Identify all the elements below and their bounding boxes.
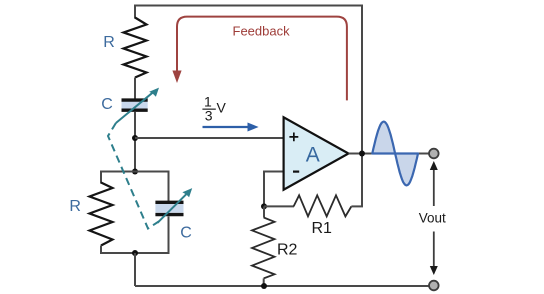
node junction plus-input (132, 135, 138, 141)
node junction RC top (132, 169, 138, 175)
sine wave output signal (372, 122, 418, 186)
wire R1 left lead (264, 205, 294, 207)
svg-text:C: C (180, 225, 192, 242)
wire RC left branch upper lead (100, 171, 102, 184)
op-amp plus sign (289, 133, 298, 142)
Vout arrow upper (430, 161, 438, 206)
output terminal top (429, 149, 439, 159)
capacitor C (bottom, variable) (155, 202, 183, 214)
wire minus input (264, 172, 284, 207)
wire plus input (135, 137, 284, 139)
node junction minus/R1/R2 (261, 203, 267, 209)
capacitor C (top, variable) (122, 100, 148, 110)
resistor R1 (294, 195, 352, 216)
wire capacitor to node A1 (134, 112, 136, 173)
svg-text:R1: R1 (312, 220, 333, 237)
node output (359, 151, 365, 157)
svg-text:R: R (103, 34, 115, 51)
arrow through bottom capacitor (158, 188, 193, 223)
svg-text:R: R (69, 198, 81, 215)
resistor R2 (252, 218, 275, 279)
wire R2 upper lead (263, 206, 265, 217)
wire left vertical top lead (134, 5, 136, 19)
wire R2 lower lead (263, 278, 265, 286)
label 1/3 V (202, 93, 226, 123)
svg-text:V: V (217, 100, 227, 116)
node junction R2 ground (261, 283, 267, 289)
svg-text:A: A (306, 144, 320, 167)
wire top of outer loop (135, 5, 362, 7)
svg-text:C: C (101, 96, 113, 113)
dashed gang line between capacitors (108, 123, 159, 229)
blue arrow (1/3 V direction) (203, 123, 259, 132)
feedback arrow curve (177, 17, 347, 101)
node junction RC bottom (132, 250, 138, 256)
resistor R (bottom left) (90, 183, 113, 246)
wire RC bottom to ground rail (134, 253, 136, 286)
wire RC right branch lower lead (168, 217, 170, 255)
wire right vertical (output rail) (361, 5, 363, 207)
svg-text:3: 3 (205, 108, 213, 124)
wire bottom rail (135, 285, 429, 287)
op-amp minus sign (293, 171, 299, 173)
wire R1 right lead (351, 205, 363, 207)
resistor R (top left) (124, 18, 147, 78)
output terminal bottom (429, 281, 439, 291)
feedback arrowhead (172, 71, 181, 84)
wire op-amp output (349, 153, 430, 155)
arrow through top capacitor (116, 88, 159, 123)
Vout arrow lower (430, 232, 438, 276)
op-amp A (284, 117, 349, 189)
svg-text:R2: R2 (277, 242, 298, 259)
svg-text:Vout: Vout (419, 210, 446, 225)
wire RC left branch lower lead (100, 246, 102, 255)
wire RC network top (101, 171, 169, 173)
svg-text:Feedback: Feedback (233, 24, 291, 39)
wire RC network bottom (101, 252, 169, 254)
wire resistor to capacitor (134, 78, 136, 100)
wire RC right branch upper lead (168, 171, 170, 202)
